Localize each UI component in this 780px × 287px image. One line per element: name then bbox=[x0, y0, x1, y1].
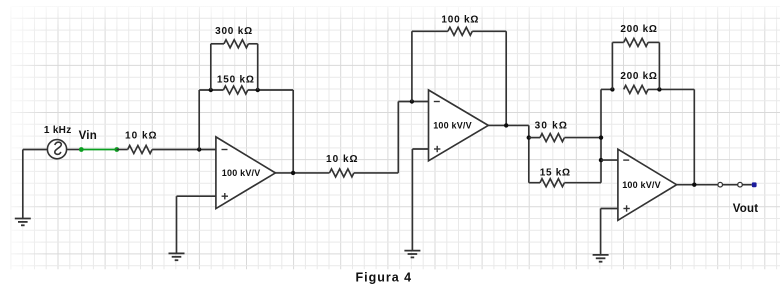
svg-text:100 kV/V: 100 kV/V bbox=[222, 168, 261, 178]
svg-text:Vin: Vin bbox=[79, 130, 97, 142]
svg-text:1 kHz: 1 kHz bbox=[44, 125, 72, 136]
svg-text:200 kΩ: 200 kΩ bbox=[620, 24, 657, 35]
svg-text:150 kΩ: 150 kΩ bbox=[217, 75, 255, 86]
svg-text:200 kΩ: 200 kΩ bbox=[620, 71, 657, 82]
svg-text:100 kV/V: 100 kV/V bbox=[433, 121, 472, 131]
svg-text:100 kV/V: 100 kV/V bbox=[622, 180, 661, 190]
svg-text:300 kΩ: 300 kΩ bbox=[215, 26, 253, 37]
svg-text:100 kΩ: 100 kΩ bbox=[441, 15, 479, 26]
svg-text:15 kΩ: 15 kΩ bbox=[540, 167, 571, 178]
svg-text:10 kΩ: 10 kΩ bbox=[326, 154, 358, 165]
svg-text:10 kΩ: 10 kΩ bbox=[125, 130, 157, 141]
svg-text:Figura 4: Figura 4 bbox=[355, 271, 412, 285]
svg-text:30 kΩ: 30 kΩ bbox=[535, 121, 568, 132]
svg-text:Vout: Vout bbox=[733, 203, 759, 215]
